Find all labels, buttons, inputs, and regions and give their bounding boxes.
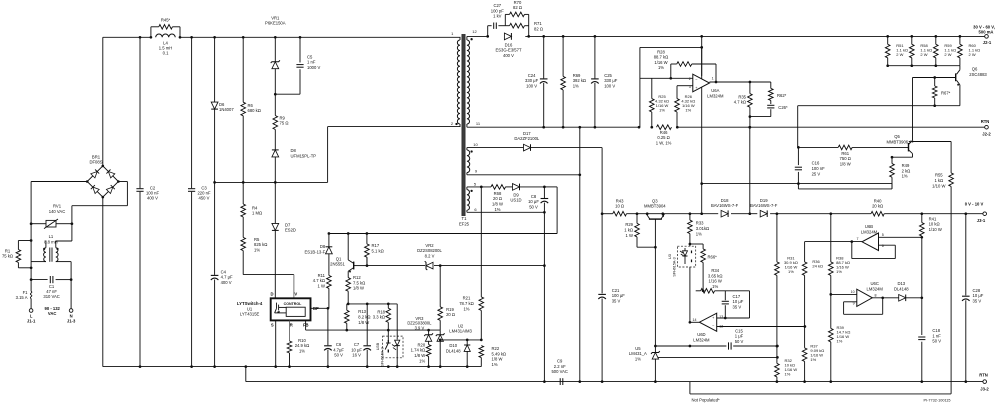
wire R55 feed row	[913, 141, 952, 143]
svg-text:Q6: Q6	[972, 67, 978, 72]
svg-text:1%: 1%	[492, 362, 498, 367]
svg-text:392 kΩ: 392 kΩ	[573, 78, 586, 83]
svg-text:R35: R35	[738, 94, 746, 99]
svg-text:0 V - 10 V: 0 V - 10 V	[965, 202, 984, 207]
zener VR2	[426, 262, 433, 269]
capacitor C18	[921, 298, 923, 335]
svg-text:C25: C25	[604, 73, 612, 78]
svg-text:R29: R29	[625, 222, 633, 227]
terminal J1-1 (L)	[29, 309, 33, 313]
svg-text:J2-1: J2-1	[983, 40, 992, 45]
resistor R58	[911, 36, 913, 44]
svg-text:1%: 1%	[696, 231, 702, 236]
svg-text:LYTSwitch-4: LYTSwitch-4	[237, 301, 263, 306]
terminal J3-1	[983, 212, 987, 216]
resistor R59	[935, 36, 937, 44]
resistor R71	[510, 23, 525, 28]
svg-text:1 nF: 1 nF	[932, 333, 941, 338]
wire node row 303.9	[347, 303, 397, 305]
resistor R6	[242, 37, 244, 102]
wire R35/C26 bottom row	[750, 116, 771, 118]
svg-text:R33: R33	[696, 221, 704, 226]
capacitor C25	[594, 36, 596, 78]
resistor R17	[366, 234, 368, 244]
diode D8 ES1B	[328, 234, 330, 247]
svg-text:R5: R5	[254, 237, 260, 242]
svg-text:RV1: RV1	[53, 204, 62, 209]
svg-text:1%: 1%	[573, 84, 579, 89]
svg-text:1%: 1%	[785, 371, 791, 376]
svg-text:5.1 kΩ: 5.1 kΩ	[372, 248, 384, 253]
svg-text:R22: R22	[492, 346, 500, 351]
svg-text:0.1: 0.1	[163, 51, 169, 56]
svg-text:16 V: 16 V	[352, 353, 361, 358]
svg-text:2 kΩ: 2 kΩ	[902, 168, 911, 173]
svg-text:UFM15PL-TP: UFM15PL-TP	[291, 153, 317, 158]
resistor R62*	[770, 82, 772, 88]
wire Q6 base column	[912, 78, 914, 141]
svg-text:1/8 W: 1/8 W	[414, 353, 425, 358]
svg-text:8: 8	[875, 293, 877, 297]
resistor R34	[696, 290, 701, 292]
svg-text:Q1: Q1	[336, 256, 342, 261]
svg-text:82 Ω: 82 Ω	[534, 26, 543, 31]
svg-text:U5: U5	[635, 346, 641, 351]
svg-text:U1: U1	[247, 306, 253, 311]
svg-text:75 Ω: 75 Ω	[280, 121, 289, 126]
svg-text:1 kV: 1 kV	[493, 14, 502, 19]
svg-text:LYT4315E: LYT4315E	[240, 312, 260, 317]
svg-text:1%: 1%	[685, 107, 691, 112]
svg-text:1%: 1%	[810, 357, 816, 362]
resistor R11	[328, 274, 330, 276]
resistor R35	[749, 82, 751, 94]
svg-text:2 W: 2 W	[896, 52, 903, 57]
svg-text:2 W: 2 W	[969, 52, 976, 57]
svg-text:R67*: R67*	[941, 91, 951, 96]
wire Q1 base row to R17	[354, 265, 367, 267]
capacitor C7	[366, 304, 368, 345]
resistor R20	[426, 345, 431, 357]
resistor R70	[504, 14, 506, 25]
wire R pin and resistor R10	[289, 320, 291, 341]
svg-text:D7: D7	[285, 222, 291, 227]
op-amp U6D	[699, 313, 716, 331]
wire RV1 right column	[71, 224, 73, 241]
svg-text:1000 V: 1000 V	[307, 65, 320, 70]
svg-text:1%: 1%	[254, 248, 260, 253]
resistor R43	[613, 211, 627, 216]
svg-text:C18: C18	[932, 328, 940, 333]
svg-text:750 Ω: 750 Ω	[840, 156, 851, 161]
svg-text:R66*: R66*	[708, 254, 718, 259]
svg-text:500 VAC: 500 VAC	[551, 369, 567, 374]
diode D17	[467, 147, 523, 149]
svg-text:R71: R71	[534, 21, 542, 26]
svg-text:C26*: C26*	[778, 105, 788, 110]
svg-text:1 μF: 1 μF	[735, 334, 744, 339]
svg-text:R28: R28	[657, 49, 665, 54]
wire RV1 left column	[30, 224, 32, 262]
svg-text:C9: C9	[557, 359, 563, 364]
resistor R22	[479, 346, 484, 358]
svg-text:J1-3: J1-3	[67, 319, 76, 324]
svg-text:D: D	[270, 291, 273, 296]
svg-text:CONTROL: CONTROL	[284, 302, 303, 306]
svg-text:5.49 kΩ: 5.49 kΩ	[492, 351, 507, 356]
resistor R45*	[150, 27, 152, 38]
svg-text:ES1B-13-F: ES1B-13-F	[304, 249, 325, 254]
svg-text:C8: C8	[531, 194, 537, 199]
wire FB row	[347, 329, 440, 331]
svg-text:10 μF: 10 μF	[351, 347, 362, 352]
shunt regulator U5	[654, 247, 656, 352]
diode D6	[214, 37, 216, 102]
diode D10	[466, 340, 468, 345]
resistor R36	[804, 242, 806, 262]
svg-text:D19: D19	[760, 198, 768, 203]
resistor R33	[689, 214, 691, 220]
wire bias return column	[543, 212, 545, 381]
svg-text:N: N	[70, 313, 73, 318]
svg-text:3.3 kΩ: 3.3 kΩ	[373, 315, 385, 320]
svg-text:LM324M: LM324M	[867, 287, 884, 292]
svg-text:10: 10	[473, 142, 478, 147]
wire opamp supply row	[702, 183, 892, 185]
optocoupler U3B	[383, 336, 403, 358]
svg-text:L: L	[30, 313, 33, 318]
svg-text:82 Ω: 82 Ω	[513, 5, 522, 10]
svg-text:3.9 V: 3.9 V	[415, 325, 425, 330]
svg-text:140 VAC: 140 VAC	[49, 209, 65, 214]
wire U6D output	[690, 321, 700, 323]
svg-text:10 Ω: 10 Ω	[615, 204, 624, 209]
capacitor C8	[543, 187, 545, 198]
varistor RV1	[31, 223, 46, 225]
svg-text:1 W: 1 W	[318, 284, 325, 289]
svg-text:10 μF: 10 μF	[528, 199, 539, 204]
capacitor C6	[327, 308, 329, 345]
svg-text:U2: U2	[458, 323, 464, 328]
svg-text:4.7μF: 4.7μF	[333, 347, 344, 352]
svg-text:400 V: 400 V	[221, 280, 232, 285]
svg-text:Q5: Q5	[894, 134, 900, 139]
svg-text:100 V: 100 V	[604, 84, 615, 89]
resistor R13	[346, 304, 348, 310]
wire FB pin	[305, 320, 307, 330]
svg-text:4.7 kΩ: 4.7 kΩ	[734, 100, 746, 105]
svg-text:L1: L1	[49, 234, 54, 239]
resistor R66*	[690, 243, 703, 245]
svg-text:88.7 kΩ: 88.7 kΩ	[654, 55, 669, 60]
svg-text:R43: R43	[616, 198, 624, 203]
svg-text:R55: R55	[935, 173, 943, 178]
wire comp column to dim diodes	[749, 127, 751, 214]
svg-text:35 V: 35 V	[612, 298, 621, 303]
resistor R32	[776, 345, 779, 348]
wire drain jog to pin 2	[327, 127, 329, 183]
svg-text:C5: C5	[307, 54, 313, 59]
svg-text:DA2ZF2100L: DA2ZF2100L	[514, 136, 540, 141]
svg-text:LM324M: LM324M	[707, 93, 724, 98]
svg-text:35 V: 35 V	[733, 305, 742, 310]
wire U6A output row	[710, 81, 771, 83]
svg-text:450 V: 450 V	[199, 196, 210, 201]
resistor R38	[830, 214, 832, 262]
svg-text:D9: D9	[513, 192, 519, 197]
resistor R9	[274, 94, 276, 115]
svg-text:MMBT3904: MMBT3904	[644, 204, 666, 209]
svg-text:R45*: R45*	[161, 17, 171, 22]
svg-text:8.2 V: 8.2 V	[425, 254, 435, 259]
wire bias feed loop	[544, 186, 557, 188]
svg-text:1%: 1%	[902, 174, 908, 179]
resistor R55	[950, 142, 952, 173]
svg-text:25 V: 25 V	[812, 171, 821, 176]
svg-text:10: 10	[851, 290, 855, 294]
svg-text:50 V: 50 V	[529, 205, 538, 210]
svg-text:1 kΩ: 1 kΩ	[624, 228, 633, 233]
svg-text:DL4148: DL4148	[894, 287, 909, 292]
resistor R51	[887, 36, 889, 44]
svg-text:1%: 1%	[635, 356, 641, 361]
svg-text:14: 14	[693, 318, 697, 322]
wire V pin feed	[243, 274, 294, 276]
svg-text:R46: R46	[660, 130, 668, 135]
wire L1 bottom rows	[31, 261, 46, 263]
svg-text:C24: C24	[528, 73, 536, 78]
svg-text:1 MΩ: 1 MΩ	[252, 211, 262, 216]
svg-text:4.7 μF: 4.7 μF	[221, 275, 233, 280]
svg-text:50 V: 50 V	[735, 339, 744, 344]
wire bottom RTN rail	[558, 381, 985, 383]
svg-text:100 V: 100 V	[526, 84, 537, 89]
svg-text:R4: R4	[252, 205, 258, 210]
svg-text:310 VAC: 310 VAC	[43, 294, 59, 299]
svg-text:C16: C16	[812, 161, 820, 166]
svg-text:R70: R70	[514, 0, 522, 5]
diode D8 UFM15PL	[272, 150, 279, 157]
svg-text:1/8 W: 1/8 W	[353, 286, 364, 291]
svg-text:2 W: 2 W	[920, 52, 927, 57]
transformer winding 10-9	[466, 148, 468, 150]
svg-text:PI-7732-100115: PI-7732-100115	[924, 399, 951, 403]
svg-text:R34: R34	[711, 268, 719, 273]
svg-text:US1D: US1D	[510, 198, 521, 203]
wire R51-R60 bottom row	[888, 65, 960, 67]
wire U6A supply column	[701, 36, 703, 213]
resistor R18	[387, 304, 389, 308]
svg-text:RTN: RTN	[979, 373, 988, 378]
resistor R61	[798, 146, 838, 148]
svg-text:90 - 132: 90 - 132	[45, 306, 61, 311]
wire Q6 emitter row	[935, 105, 960, 107]
svg-text:C15: C15	[735, 328, 743, 333]
svg-text:3.15 A: 3.15 A	[16, 295, 28, 300]
svg-text:35 V: 35 V	[973, 299, 982, 304]
resistor R21	[480, 187, 482, 297]
resistor R49	[891, 156, 894, 159]
svg-text:8.8 mH: 8.8 mH	[44, 239, 58, 244]
wire clamp node row	[215, 181, 328, 183]
diode D9	[506, 186, 513, 188]
svg-text:VAC: VAC	[48, 311, 57, 316]
svg-text:1/10 W: 1/10 W	[932, 183, 945, 188]
svg-text:Q3: Q3	[652, 198, 658, 203]
svg-text:D13: D13	[897, 281, 905, 286]
svg-text:2N5551: 2N5551	[330, 262, 345, 267]
diode D19	[760, 210, 767, 217]
svg-text:ES2D: ES2D	[285, 228, 296, 233]
svg-text:75 kΩ: 75 kΩ	[2, 254, 13, 259]
svg-text:1N4007: 1N4007	[219, 107, 234, 112]
svg-text:1%: 1%	[712, 284, 718, 289]
svg-text:D16: D16	[505, 42, 513, 47]
svg-text:825 kΩ: 825 kΩ	[254, 242, 267, 247]
svg-text:1 W, 1%: 1 W, 1%	[656, 141, 672, 146]
svg-text:50 V: 50 V	[932, 339, 941, 344]
wire primary ground rail	[103, 366, 482, 368]
svg-text:R68: R68	[494, 191, 502, 196]
resistor R68	[491, 185, 506, 190]
svg-text:500 mA: 500 mA	[979, 29, 994, 34]
resistor R1	[18, 240, 31, 242]
wire pin 9 row	[467, 174, 580, 176]
svg-text:2: 2	[689, 77, 691, 81]
wire U5 ref row	[655, 356, 777, 358]
svg-text:R41: R41	[929, 216, 937, 221]
diode D13	[899, 295, 906, 302]
capacitor C16	[797, 147, 799, 165]
svg-text:S: S	[271, 323, 274, 328]
wire not-populated box	[689, 382, 691, 394]
svg-text:U6B: U6B	[865, 224, 873, 229]
op-amp U6A	[640, 77, 693, 79]
svg-text:20 Ω: 20 Ω	[446, 312, 455, 317]
resistor R5	[242, 217, 244, 237]
capacitor C9	[559, 378, 561, 385]
svg-text:400 V: 400 V	[503, 53, 514, 58]
svg-text:RTN: RTN	[981, 119, 990, 124]
svg-text:R11: R11	[318, 273, 326, 278]
svg-text:T1: T1	[462, 216, 468, 221]
common mode choke L1	[45, 241, 47, 248]
svg-text:24 kΩ: 24 kΩ	[812, 263, 823, 268]
resistor R37	[804, 327, 806, 348]
svg-text:LM324M: LM324M	[861, 229, 878, 234]
svg-text:MMBT3906: MMBT3906	[886, 139, 908, 144]
wire S pin	[275, 320, 277, 366]
svg-text:1 W: 1 W	[626, 233, 633, 238]
svg-text:20 Ω: 20 Ω	[493, 196, 502, 201]
transformer primary winding 1-2	[459, 37, 461, 40]
svg-text:6: 6	[882, 244, 884, 248]
diode D7	[274, 182, 276, 223]
svg-text:400 V: 400 V	[147, 196, 158, 201]
wire U6A top frame	[640, 46, 702, 48]
svg-text:C4: C4	[221, 269, 227, 274]
svg-text:0.25 Ω: 0.25 Ω	[657, 135, 669, 140]
svg-text:5: 5	[882, 233, 884, 237]
capacitor C1	[31, 279, 47, 281]
svg-text:1 kΩ: 1 kΩ	[934, 178, 943, 183]
svg-text:7.5 kΩ: 7.5 kΩ	[353, 280, 365, 285]
svg-text:4.7 kΩ: 4.7 kΩ	[313, 278, 325, 283]
svg-text:1/8 W: 1/8 W	[840, 162, 851, 167]
svg-text:ES3G-E3/57T: ES3G-E3/57T	[495, 48, 522, 53]
resistor R19	[439, 266, 441, 307]
svg-text:1.74 kΩ: 1.74 kΩ	[411, 348, 426, 353]
svg-text:Not Populated*: Not Populated*	[692, 398, 721, 403]
svg-text:R40: R40	[874, 198, 882, 203]
capacitor C15	[655, 345, 726, 347]
wire U3 column	[689, 245, 691, 247]
svg-text:D6: D6	[219, 102, 225, 107]
IC U1 LYTSwitch-4	[271, 298, 311, 320]
svg-text:D18: D18	[721, 198, 729, 203]
wire pin 6 row	[467, 211, 545, 213]
wire U2 ref row	[440, 339, 481, 341]
wire secondary return rail	[467, 126, 639, 128]
svg-text:680 kΩ: 680 kΩ	[248, 108, 261, 113]
svg-text:C6: C6	[336, 342, 342, 347]
capacitor C2	[139, 37, 141, 188]
svg-text:R18: R18	[377, 309, 385, 314]
wire dim rail	[602, 213, 613, 215]
svg-text:LM324M: LM324M	[693, 338, 710, 343]
svg-text:LM431_A: LM431_A	[629, 351, 647, 356]
svg-text:R10: R10	[298, 338, 306, 343]
svg-text:100 pF: 100 pF	[491, 8, 504, 13]
svg-text:1/8 W: 1/8 W	[492, 202, 503, 207]
resistor R31	[776, 214, 778, 262]
svg-text:VR1: VR1	[271, 15, 280, 20]
svg-text:U6D: U6D	[697, 332, 705, 337]
diode D16	[504, 33, 511, 40]
svg-text:3.01kΩ: 3.01kΩ	[696, 226, 709, 231]
svg-text:8.2 kΩ: 8.2 kΩ	[358, 315, 370, 320]
svg-text:1/16 W: 1/16 W	[654, 60, 667, 65]
svg-text:R1: R1	[5, 248, 11, 253]
svg-text:10 μF: 10 μF	[973, 293, 984, 298]
wire secondary top rail	[467, 35, 488, 37]
svg-text:U6A: U6A	[711, 88, 719, 93]
wire bias rail row	[329, 233, 557, 235]
fuse F1	[30, 299, 32, 309]
resistor R25	[651, 78, 653, 98]
svg-text:7: 7	[857, 237, 859, 241]
resistor R67*	[932, 86, 937, 98]
wire J1-3 column	[70, 280, 72, 309]
wire bridge DC- column	[102, 197, 104, 367]
svg-text:1: 1	[712, 77, 714, 81]
svg-text:BR1: BR1	[92, 154, 101, 159]
svg-text:D10: D10	[449, 343, 457, 348]
svg-text:2SC4883: 2SC4883	[969, 72, 987, 77]
optocoupler U3	[677, 246, 695, 267]
svg-text:VR2: VR2	[425, 243, 434, 248]
resistor R60	[959, 36, 961, 44]
svg-text:V: V	[294, 291, 297, 296]
bridge rectifier BR1	[87, 166, 118, 197]
svg-text:24.9 kΩ: 24.9 kΩ	[295, 343, 310, 348]
svg-text:J3-2: J3-2	[980, 386, 989, 391]
wire RTN drop column	[579, 127, 581, 381]
capacitor C24	[543, 36, 545, 78]
svg-text:C28: C28	[973, 288, 981, 293]
svg-text:13: 13	[719, 315, 723, 319]
svg-text:R17: R17	[372, 243, 380, 248]
